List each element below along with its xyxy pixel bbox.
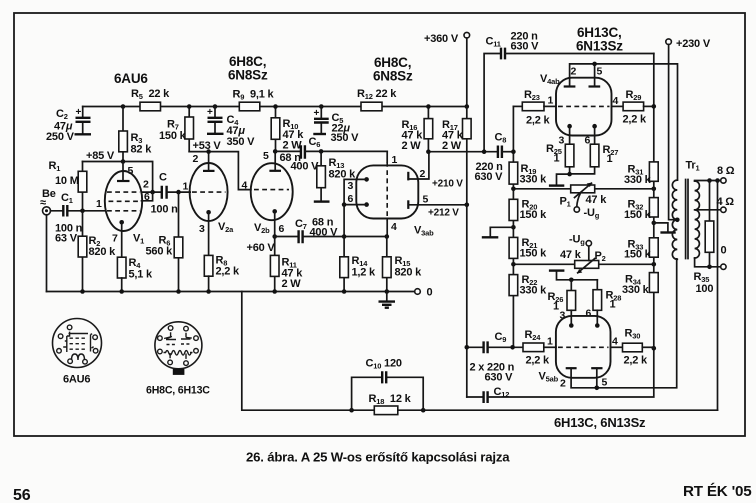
resistor R16 — [427, 107, 429, 152]
svg-text:1: 1 — [392, 154, 398, 166]
wire 8ohm line — [695, 180, 721, 183]
svg-text:1: 1 — [183, 181, 189, 193]
resistor R4 — [117, 257, 126, 278]
svg-text:82 k: 82 k — [131, 144, 153, 156]
resistor R6 — [178, 192, 180, 291]
resistor R5 — [140, 102, 161, 111]
svg-text:1: 1 — [547, 336, 553, 348]
svg-text:5: 5 — [597, 66, 603, 78]
ground V4 cathode — [549, 184, 564, 186]
svg-text:26. ábra. A 25 W-os erősítő ka: 26. ábra. A 25 W-os erősítő kapcsolási r… — [246, 450, 510, 465]
terminal +230V — [666, 39, 672, 45]
Tr1 primary winding — [672, 180, 677, 259]
svg-text:2 W: 2 W — [442, 140, 462, 152]
resistor R15 — [385, 234, 390, 239]
resistor R28 — [596, 280, 598, 290]
resistor R7 — [188, 107, 190, 152]
svg-text:250 V: 250 V — [46, 131, 75, 143]
node +212 junction — [465, 203, 470, 208]
tube V2a — [190, 163, 228, 221]
resistor R32 — [649, 198, 658, 217]
ground stub left — [482, 236, 499, 238]
svg-text:4: 4 — [391, 221, 397, 233]
wire 0 line — [695, 258, 721, 267]
svg-text:5: 5 — [263, 150, 269, 162]
ground C2 — [75, 133, 92, 135]
capacitor C12 — [467, 396, 483, 398]
grid column left x513 — [512, 106, 514, 347]
V5ab grid dashes — [558, 346, 609, 348]
svg-text:R9 9,1 k: R9 9,1 k — [233, 89, 275, 102]
resistor R21 — [509, 237, 518, 258]
capacitor C1 — [51, 210, 106, 212]
wire stub to ground — [490, 227, 513, 236]
svg-text:3: 3 — [559, 135, 565, 147]
svg-text:1: 1 — [554, 153, 560, 165]
V4ab plates — [564, 85, 576, 87]
resistor R31 — [649, 162, 658, 181]
svg-text:6N13Sz: 6N13Sz — [576, 39, 623, 54]
node R20/R21 junction — [511, 225, 516, 230]
ground main rail — [386, 292, 388, 301]
resistor R30 — [611, 346, 623, 348]
resistor R19 — [509, 162, 518, 184]
svg-text:1: 1 — [610, 299, 616, 311]
svg-text:1,2 k: 1,2 k — [352, 267, 377, 279]
svg-text:3: 3 — [348, 180, 354, 192]
resistor R3 — [122, 107, 124, 162]
wire bottom feedback rail — [242, 292, 718, 411]
node rail-R3 junction — [121, 104, 126, 109]
wire 4ohm line — [695, 209, 721, 211]
terminal 0 ohm — [721, 264, 726, 269]
svg-text:+85 V: +85 V — [86, 150, 115, 162]
svg-text:6AU6: 6AU6 — [114, 71, 148, 86]
Tr1 secondary winding — [695, 181, 700, 258]
tube V1 — [105, 171, 142, 231]
ground R13 — [314, 200, 330, 202]
svg-text:47 k: 47 k — [586, 194, 608, 206]
svg-text:C10 120: C10 120 — [366, 358, 402, 371]
wire P2 line — [513, 263, 653, 265]
wire V3ab tail — [343, 205, 345, 237]
resistor R34 — [649, 273, 658, 293]
svg-text:2,2 k: 2,2 k — [216, 266, 241, 278]
V2b grid dashes — [254, 189, 289, 191]
resistor R13 — [319, 149, 324, 154]
svg-text:150 k: 150 k — [159, 130, 187, 142]
socket diagram 6H8C/6H13C — [155, 322, 202, 369]
capacitor C10 — [352, 377, 424, 410]
V3ab grid line pin1/pin4 — [386, 151, 388, 162]
svg-text:2: 2 — [560, 378, 566, 390]
capacitor C7 — [272, 234, 277, 239]
svg-text:560 k: 560 k — [146, 246, 174, 258]
svg-text:6H8C, 6H13C: 6H8C, 6H13C — [146, 385, 210, 397]
V4ab grid dashes — [558, 105, 610, 107]
V2b cathode — [272, 209, 277, 214]
svg-text:2,2 k: 2,2 k — [526, 355, 551, 367]
resistor R17 — [466, 107, 468, 205]
svg-text:+: + — [76, 107, 82, 118]
capacitor C11 — [501, 48, 505, 60]
svg-text:1: 1 — [607, 153, 613, 165]
svg-text:10 M: 10 M — [55, 175, 79, 187]
svg-text:2: 2 — [193, 153, 199, 165]
svg-text:0: 0 — [721, 245, 727, 257]
svg-text:100: 100 — [696, 283, 714, 295]
wire input to ground rail — [46, 215, 48, 292]
resistor R35 — [709, 181, 711, 267]
svg-text:400 V: 400 V — [291, 161, 320, 173]
svg-text:2,2 k: 2,2 k — [624, 355, 649, 367]
wire P1 line — [513, 188, 653, 190]
terminal 4ohm — [721, 207, 726, 212]
svg-text:150 k: 150 k — [624, 249, 652, 261]
svg-text:R5 22 k: R5 22 k — [131, 88, 170, 101]
svg-text:1: 1 — [553, 301, 559, 313]
resistor R23 — [522, 102, 544, 111]
capacitor C2 — [82, 107, 84, 134]
V3ab plate lower — [407, 200, 409, 209]
svg-text:150 k: 150 k — [520, 209, 548, 221]
wire stub to ground right — [654, 223, 668, 232]
svg-text:C: C — [159, 172, 167, 184]
resistor R29 — [612, 105, 624, 107]
V5ab plates — [566, 367, 577, 369]
wire V4 cathode returns — [557, 167, 595, 185]
Tr1 core — [686, 180, 688, 259]
svg-text:8 Ω: 8 Ω — [717, 165, 735, 177]
svg-text:2: 2 — [143, 179, 149, 191]
svg-text:+212 V: +212 V — [428, 208, 459, 219]
capacitor C11 drop wire — [484, 54, 500, 152]
svg-text:330 k: 330 k — [520, 174, 548, 186]
svg-text:6: 6 — [144, 191, 150, 203]
svg-text:63 V: 63 V — [55, 233, 78, 245]
V2a plate — [203, 170, 215, 172]
V2b plate — [269, 170, 281, 172]
ground C4 — [207, 133, 224, 135]
ground stub right — [660, 231, 675, 233]
input terminal Be — [43, 207, 51, 215]
svg-text:630 V: 630 V — [475, 171, 504, 183]
tube V2b — [251, 163, 293, 220]
capacitor C9 — [466, 205, 468, 397]
resistor R1 — [82, 162, 84, 211]
resistor R12 — [361, 102, 382, 111]
svg-text:4 Ω: 4 Ω — [717, 196, 735, 208]
svg-text:≈: ≈ — [40, 197, 46, 209]
V3ab cathode dots and bracket — [364, 177, 369, 182]
wire V5 plates to primary bottom — [571, 259, 677, 388]
wire +53V node — [189, 152, 251, 190]
node R3/+85V junction — [121, 159, 126, 164]
svg-text:350 V: 350 V — [331, 132, 360, 144]
V3ab plate upper — [407, 172, 409, 181]
svg-text:3: 3 — [199, 223, 205, 235]
node +85V wire — [83, 162, 153, 193]
svg-text:6: 6 — [348, 193, 354, 205]
svg-text:+210 V: +210 V — [432, 179, 463, 190]
capacitor C5 — [319, 104, 324, 109]
wire ground rail — [47, 291, 418, 293]
svg-text:2 W: 2 W — [402, 140, 422, 152]
V4ab cathodes — [567, 124, 572, 129]
svg-text:5,1 k: 5,1 k — [129, 269, 154, 281]
resistor R10 — [275, 107, 277, 152]
wire +360 feed / R17 column — [466, 38, 468, 107]
wire +230V feed to transformer tap — [669, 45, 678, 220]
resistor R2 — [82, 211, 84, 292]
resistor R24 — [523, 343, 544, 352]
V1 cathode — [119, 220, 124, 225]
svg-text:1: 1 — [96, 198, 102, 210]
resistor R22 — [509, 275, 518, 296]
wire V1 pin6 loop — [142, 192, 153, 201]
resistor R33 — [649, 238, 658, 257]
wire V1 plate node to coupling cap — [142, 191, 161, 193]
resistor R8 — [204, 255, 213, 276]
capacitor C8 — [498, 146, 502, 159]
svg-text:630 V: 630 V — [511, 41, 540, 53]
svg-text:1: 1 — [548, 95, 554, 107]
svg-text:820 k: 820 k — [395, 267, 423, 279]
svg-text:RT ÉK '05: RT ÉK '05 — [683, 483, 752, 500]
node grid junction V1 — [80, 209, 85, 214]
wire feedback from 8ohm — [717, 181, 719, 411]
svg-text:150 k: 150 k — [520, 248, 548, 260]
resistor R25 — [565, 144, 574, 167]
svg-text:330 k: 330 k — [624, 174, 652, 186]
svg-text:150 k: 150 k — [624, 209, 652, 221]
svg-text:6: 6 — [586, 308, 592, 320]
V5ab cathodes — [569, 323, 574, 328]
terminal 0 signal — [415, 289, 421, 295]
svg-text:2,2 k: 2,2 k — [526, 115, 551, 127]
tube V5ab — [556, 316, 611, 378]
svg-text:4: 4 — [612, 336, 618, 348]
wire V4 plates to transformer primary top — [570, 64, 678, 180]
svg-text:0: 0 — [427, 287, 433, 299]
svg-text:4: 4 — [613, 95, 619, 107]
svg-text:6AU6: 6AU6 — [63, 374, 90, 386]
V1 plate — [117, 180, 130, 182]
svg-text:56: 56 — [13, 487, 31, 503]
potentiometer P2 — [575, 261, 599, 269]
svg-text:5: 5 — [423, 194, 429, 206]
svg-text:820 k: 820 k — [89, 246, 117, 258]
V1 grid dashes — [107, 191, 140, 193]
svg-text:2,2 k: 2,2 k — [623, 114, 648, 126]
svg-text:47 k: 47 k — [560, 249, 582, 261]
ground V5 grid network — [549, 269, 565, 271]
svg-text:2 W: 2 W — [282, 278, 302, 290]
svg-text:100 n: 100 n — [151, 204, 179, 216]
tube V3ab — [356, 165, 418, 218]
resistor R9 — [239, 102, 259, 111]
svg-text:330 k: 330 k — [622, 284, 650, 296]
svg-text:+: + — [207, 107, 213, 118]
svg-text:5: 5 — [128, 165, 134, 177]
tube V4ab — [556, 78, 612, 136]
svg-text:+230 V: +230 V — [676, 38, 711, 50]
resistor R20 — [509, 199, 518, 220]
svg-text:6N8Sz: 6N8Sz — [228, 68, 268, 83]
socket diagram 6AU6 — [53, 319, 102, 368]
resistor R11 — [274, 237, 276, 292]
svg-text:2: 2 — [420, 168, 426, 180]
svg-text:630 V: 630 V — [485, 372, 514, 384]
svg-text:2 W: 2 W — [283, 140, 303, 152]
svg-text:R18 12 k: R18 12 k — [369, 393, 412, 406]
terminal 8ohm — [721, 178, 726, 183]
socket key tab — [173, 369, 185, 375]
resistor R18 — [374, 406, 398, 415]
svg-text:+53 V: +53 V — [193, 140, 222, 152]
svg-text:+60 V: +60 V — [247, 242, 276, 254]
svg-text:+360 V: +360 V — [424, 33, 459, 45]
ground C5 — [313, 133, 326, 135]
potentiometer P1 — [571, 185, 595, 193]
wire B+ rail first stages — [83, 106, 467, 108]
right column R31-R34 — [653, 54, 655, 349]
svg-text:6N8Sz: 6N8Sz — [373, 69, 413, 84]
node Tr1 center tap — [675, 218, 680, 223]
node C/R6 junction — [176, 190, 181, 195]
svg-text:4: 4 — [242, 180, 248, 192]
svg-text:2: 2 — [571, 66, 577, 78]
capacitor C6 — [273, 149, 278, 154]
V2a cathode — [206, 210, 211, 215]
V2a grid dashes — [192, 191, 226, 193]
resistor R14 — [343, 237, 345, 292]
capacitor C4 — [213, 104, 218, 109]
svg-text:5: 5 — [602, 377, 608, 389]
resistor R27 — [590, 144, 599, 167]
resistor R26 — [570, 280, 572, 291]
capacitor C coupling — [162, 186, 167, 199]
svg-text:+: + — [314, 108, 320, 119]
node R32/R33 junction — [652, 221, 657, 226]
svg-text:6: 6 — [279, 223, 285, 235]
terminal +360V — [464, 32, 470, 38]
svg-text:6H13C, 6N13Sz: 6H13C, 6N13Sz — [554, 415, 646, 430]
svg-text:330 k: 330 k — [520, 285, 548, 297]
svg-text:350 V: 350 V — [227, 136, 256, 148]
svg-text:400 V: 400 V — [310, 227, 339, 239]
wire plate node to C8 — [428, 151, 497, 153]
svg-text:7: 7 — [112, 233, 118, 245]
svg-text:R12 22 k: R12 22 k — [357, 88, 397, 101]
